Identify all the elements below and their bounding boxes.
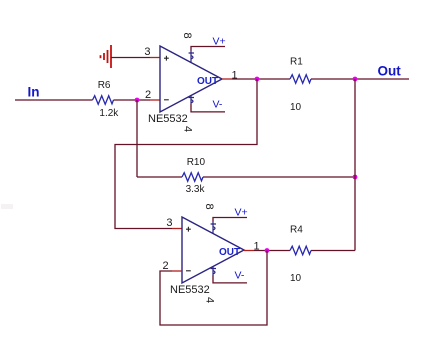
U2 minus input mark <box>186 270 191 272</box>
svg-text:V+: V+ <box>213 36 226 48</box>
U1 V+ power pin <box>189 51 194 63</box>
svg-text:V+: V+ <box>235 207 248 219</box>
U1 V+ power elbow wire <box>191 47 225 51</box>
op-amp U2 NE5532 <box>163 203 260 303</box>
ground <box>101 45 112 68</box>
svg-text:3: 3 <box>166 217 172 229</box>
resistor R1 <box>290 75 311 84</box>
pin 1 red stub U2 <box>244 250 254 252</box>
svg-text:4: 4 <box>204 297 216 303</box>
wire U1 output to R1 <box>232 78 290 80</box>
node junction U2 out <box>265 248 270 253</box>
svg-text:R4: R4 <box>290 225 303 236</box>
U2 triangle body <box>182 217 244 283</box>
U2 V- power pin <box>211 266 216 275</box>
wire output rail vertical <box>354 79 356 251</box>
wire to R10 left <box>137 176 182 178</box>
svg-text:NE5532: NE5532 <box>148 113 188 125</box>
wire In lead <box>15 99 93 101</box>
svg-text:NE5532: NE5532 <box>170 284 210 296</box>
node junction Out rail top <box>353 77 358 82</box>
U1 plus input mark <box>164 56 169 61</box>
wire U2 feedback loop <box>160 251 267 326</box>
pin 2 red stub U2 <box>172 270 182 272</box>
svg-text:3: 3 <box>144 46 150 58</box>
resistor R6 <box>93 96 114 105</box>
U2 V+ power elbow wire <box>213 218 247 222</box>
svg-text:2: 2 <box>163 260 169 272</box>
svg-text:R1: R1 <box>290 57 303 68</box>
svg-text:OUT: OUT <box>197 76 218 87</box>
pin 2 red stub U1 <box>150 99 160 101</box>
U1 minus input mark <box>164 99 169 101</box>
svg-text:8: 8 <box>203 203 215 209</box>
svg-text:1.2k: 1.2k <box>99 108 119 119</box>
U2 V- power elbow wire <box>213 275 247 283</box>
svg-text:8: 8 <box>181 32 193 38</box>
svg-text:10: 10 <box>290 273 302 284</box>
pin 3 red stub U2 <box>172 228 182 230</box>
wire U1 out down-left-down to U2 pin3 <box>115 79 257 229</box>
svg-text:3.3k: 3.3k <box>186 184 206 195</box>
node junction R10 rail <box>353 175 358 180</box>
resistor R4 <box>290 246 311 255</box>
wire R4 to rail <box>311 250 355 252</box>
svg-text:1: 1 <box>232 70 238 82</box>
svg-text:In: In <box>28 85 40 100</box>
svg-text:2: 2 <box>145 89 151 101</box>
svg-text:R6: R6 <box>98 80 111 91</box>
svg-text:Out: Out <box>378 64 402 79</box>
op-amp U1 NE5532 <box>144 32 237 132</box>
svg-text:R10: R10 <box>187 157 206 168</box>
svg-text:4: 4 <box>182 126 194 132</box>
wire R1 to Out <box>311 78 409 80</box>
svg-text:V-: V- <box>213 99 223 111</box>
wire U2 output to R4 <box>254 250 290 252</box>
pin 3 red stub U1 <box>150 57 160 59</box>
U2 V+ power pin <box>211 222 216 234</box>
wire U1 pin2 junction down to R10 <box>136 100 138 177</box>
wire R6 to U1 pin2 <box>114 99 151 101</box>
node junction U1 pin2 <box>135 98 140 103</box>
resistor R10 <box>182 173 203 182</box>
wire ground to U1 pin3 <box>111 57 150 59</box>
pin 1 red stub U1 <box>222 78 232 80</box>
svg-text:V-: V- <box>235 270 245 282</box>
U1 V- power elbow wire <box>191 104 225 112</box>
U2 plus input mark <box>186 227 191 232</box>
node junction U1 out <box>255 77 260 82</box>
U1 triangle body <box>160 46 222 112</box>
U1 V- power pin <box>189 95 194 104</box>
svg-text:10: 10 <box>290 102 302 113</box>
svg-text:OUT: OUT <box>219 247 240 258</box>
wire R10 right to rail <box>203 176 355 178</box>
